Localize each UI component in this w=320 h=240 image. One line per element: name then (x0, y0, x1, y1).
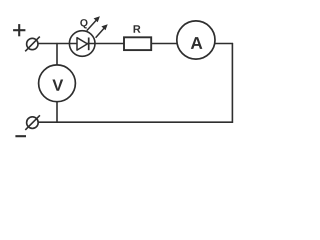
ammeter letter A (191, 37, 203, 49)
LED light arrow 1 (87, 16, 100, 30)
label R (134, 25, 141, 33)
LED Q body circle (69, 31, 95, 57)
diode cathode bar (88, 38, 90, 51)
terminal plus (25, 37, 40, 52)
label Q (80, 19, 87, 28)
voltmeter V body (39, 65, 76, 102)
wire top rail (38, 43, 232, 45)
wire voltmeter bottom lead (56, 102, 58, 122)
wire voltmeter top lead (56, 44, 58, 65)
voltmeter letter V (52, 79, 63, 90)
diode triangle of LED (77, 38, 87, 50)
plus sign (13, 24, 25, 36)
wire right vertical (231, 44, 233, 123)
ammeter A body (177, 21, 215, 59)
resistor R body (124, 37, 151, 50)
terminal minus (25, 115, 40, 130)
LED light arrow 2 (96, 24, 108, 38)
minus sign (15, 135, 26, 137)
wire bottom rail (38, 121, 232, 123)
